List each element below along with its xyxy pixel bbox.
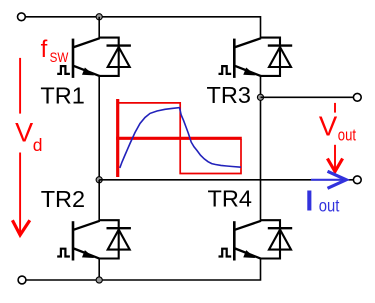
transistor TR4 bbox=[219, 220, 293, 260]
svg-text:V: V bbox=[15, 118, 33, 148]
wire output bottom (from left midpoint) bbox=[99, 179, 353, 181]
wire left leg lower bbox=[98, 180, 100, 220]
arrow V_out head bbox=[327, 159, 342, 172]
svg-text:TR1: TR1 bbox=[40, 82, 84, 108]
svg-text:f: f bbox=[41, 36, 48, 63]
arrow I_out shaft bbox=[311, 179, 342, 181]
terminal top-left bbox=[18, 13, 26, 21]
svg-text:V: V bbox=[319, 111, 338, 142]
svg-text:TR3: TR3 bbox=[207, 82, 251, 108]
arrow V_out shaft lower bbox=[334, 145, 336, 171]
node: top junction bbox=[96, 14, 102, 20]
svg-text:d: d bbox=[33, 135, 43, 155]
arrow V_d shaft lower bbox=[19, 153, 21, 235]
transistor TR2 bbox=[57, 220, 131, 260]
terminal output bottom bbox=[353, 176, 361, 184]
wire output top bbox=[261, 96, 354, 98]
node: bottom junction bbox=[96, 277, 102, 283]
wire left leg upper bbox=[98, 17, 100, 38]
node: right midpoint junction bbox=[257, 94, 263, 100]
transistor TR3 bbox=[219, 38, 293, 78]
terminal bottom-left bbox=[18, 276, 26, 284]
svg-text:SW: SW bbox=[50, 49, 69, 65]
svg-text:I: I bbox=[305, 185, 313, 217]
wire top rail bbox=[25, 17, 260, 38]
svg-text:TR4: TR4 bbox=[208, 186, 252, 212]
wire left leg bottom bbox=[98, 259, 100, 281]
plot: thin red square wave bbox=[117, 103, 241, 174]
terminal output top bbox=[353, 93, 361, 101]
transistor TR1 bbox=[57, 38, 131, 78]
arrow V_d shaft upper bbox=[19, 58, 21, 114]
node: left midpoint junction bbox=[96, 177, 102, 183]
svg-text:TR2: TR2 bbox=[41, 186, 85, 212]
svg-text:out: out bbox=[319, 195, 340, 215]
wire bottom rail bbox=[26, 259, 261, 281]
plot: thick red vertical axis bbox=[116, 99, 119, 177]
wire right leg middle bbox=[260, 76, 262, 220]
svg-text:out: out bbox=[338, 126, 356, 145]
arrow I_out head bbox=[328, 171, 347, 188]
plot: thick red horizontal zero axis bbox=[116, 137, 242, 140]
arrow V_out shaft upper bbox=[334, 103, 336, 113]
wire left leg middle bbox=[98, 76, 100, 180]
arrow V_d head bbox=[12, 220, 29, 235]
plot: blue current curve bbox=[120, 108, 241, 168]
